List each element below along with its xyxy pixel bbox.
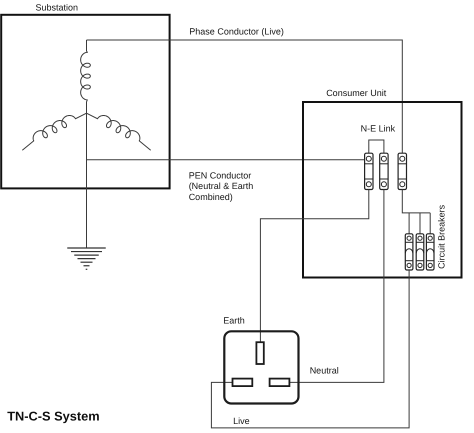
socket neutral pin: [270, 379, 290, 387]
consumer unit box: [303, 102, 462, 278]
transformer winding (lower-left phase): [22, 113, 86, 150]
terminal block TB2 (neutral): [380, 153, 388, 189]
transformer winding (vertical / live phase): [81, 40, 91, 113]
svg-text:Combined): Combined): [189, 192, 233, 202]
transformer winding (lower-right phase): [87, 113, 151, 150]
svg-text:TN-C-S System: TN-C-S System: [7, 409, 99, 424]
svg-text:Earth: Earth: [223, 316, 245, 326]
svg-text:N-E Link: N-E Link: [361, 123, 396, 133]
circuit breaker CB2: [416, 234, 424, 270]
wire: star point to earth electrode: [86, 113, 88, 248]
wire: breaker feed drop 1: [408, 213, 410, 234]
circuit breaker CB3: [426, 234, 434, 270]
svg-text:(Neutral & Earth: (Neutral & Earth: [189, 181, 254, 191]
svg-text:Live: Live: [233, 416, 250, 426]
substation box: [1, 15, 169, 189]
svg-text:PEN Conductor: PEN Conductor: [189, 170, 252, 180]
svg-text:Circuit Breakers: Circuit Breakers: [436, 204, 446, 269]
wire: N-E link bridge: [369, 140, 384, 153]
wire: live from TB3 to breaker bus: [402, 190, 430, 213]
wire: PEN conductor from star point to consumer unit neutral block: [87, 159, 365, 161]
circuit breaker CB1: [405, 234, 413, 270]
socket earth pin: [256, 342, 263, 364]
wire: live from CB1 to socket live pin: [211, 270, 409, 428]
socket outlet box: [224, 331, 298, 403]
svg-text:Phase Conductor (Live): Phase Conductor (Live): [189, 27, 284, 37]
wire: phase conductor (live) from transformer to consumer unit: [87, 40, 403, 153]
wire: breaker feed drop 2: [419, 213, 421, 234]
svg-text:Substation: Substation: [36, 3, 79, 13]
terminal block TB1 (earth): [365, 153, 373, 189]
ground (earth electrode): [67, 248, 106, 269]
svg-text:Neutral: Neutral: [310, 366, 339, 376]
socket live pin: [233, 379, 253, 387]
svg-text:Consumer Unit: Consumer Unit: [326, 88, 387, 98]
wire: breaker feed drop 3: [429, 213, 431, 234]
wire: earth from TB1 to socket earth pin: [260, 190, 368, 343]
wire: neutral from TB2 to socket neutral pin: [289, 190, 384, 383]
terminal block TB3 (live): [398, 153, 406, 189]
